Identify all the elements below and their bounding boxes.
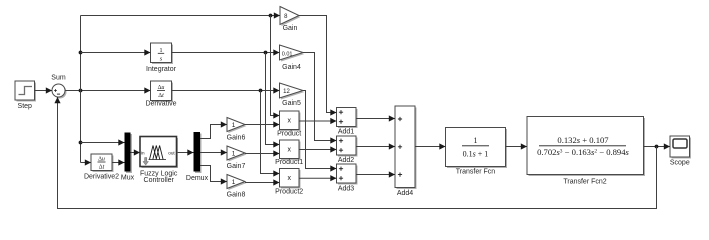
svg-text:x: x <box>287 118 291 125</box>
svg-text:Transfer Fcn: Transfer Fcn <box>456 169 496 176</box>
svg-text:Gain: Gain <box>283 25 298 32</box>
svg-text:Derivative: Derivative <box>145 101 176 108</box>
svg-text:Add4: Add4 <box>397 190 413 197</box>
svg-text:Add3: Add3 <box>338 186 354 193</box>
svg-text:Δt: Δt <box>99 165 105 171</box>
svg-text:0.1s + 1: 0.1s + 1 <box>463 150 489 159</box>
svg-text:1: 1 <box>232 122 236 129</box>
svg-text:Transfer Fcn2: Transfer Fcn2 <box>563 179 606 186</box>
svg-text:0.702s3 − 0.163s2 − 0.894s: 0.702s3 − 0.163s2 − 0.894s <box>537 147 629 157</box>
svg-text:1: 1 <box>159 47 162 54</box>
svg-text:Product2: Product2 <box>275 188 303 195</box>
svg-text:Δt: Δt <box>158 93 164 99</box>
svg-text:Step: Step <box>18 103 33 110</box>
svg-text:Derivative2: Derivative2 <box>84 174 119 181</box>
svg-text:Integrator: Integrator <box>146 66 177 73</box>
svg-text:Controller: Controller <box>144 177 175 184</box>
svg-text:12: 12 <box>283 89 290 95</box>
svg-text:Δu: Δu <box>158 85 165 91</box>
svg-text:Scope: Scope <box>670 160 690 167</box>
svg-text:in: in <box>141 151 145 156</box>
svg-text:Product: Product <box>277 131 301 138</box>
svg-text:1: 1 <box>474 136 478 145</box>
svg-text:Add1: Add1 <box>338 129 354 136</box>
svg-text:Demux: Demux <box>186 175 209 182</box>
svg-text:Gain6: Gain6 <box>227 135 246 142</box>
svg-text:x: x <box>287 175 291 182</box>
svg-text:Gain8: Gain8 <box>227 192 246 199</box>
svg-text:Mux: Mux <box>121 175 135 182</box>
svg-text:Δu: Δu <box>98 156 105 162</box>
svg-text:Gain7: Gain7 <box>227 163 246 170</box>
svg-text:0.01: 0.01 <box>282 52 293 58</box>
svg-text:x: x <box>287 147 291 154</box>
svg-text:Product1: Product1 <box>275 159 303 166</box>
svg-text:out: out <box>168 151 175 156</box>
svg-text:Add2: Add2 <box>338 157 354 164</box>
svg-text:Gain5: Gain5 <box>282 100 301 107</box>
svg-text:0.132s + 0.107: 0.132s + 0.107 <box>557 135 609 145</box>
svg-text:1: 1 <box>232 179 236 186</box>
svg-text:Gain4: Gain4 <box>282 64 301 71</box>
svg-text:Sum: Sum <box>51 75 66 82</box>
svg-text:1: 1 <box>232 151 236 158</box>
